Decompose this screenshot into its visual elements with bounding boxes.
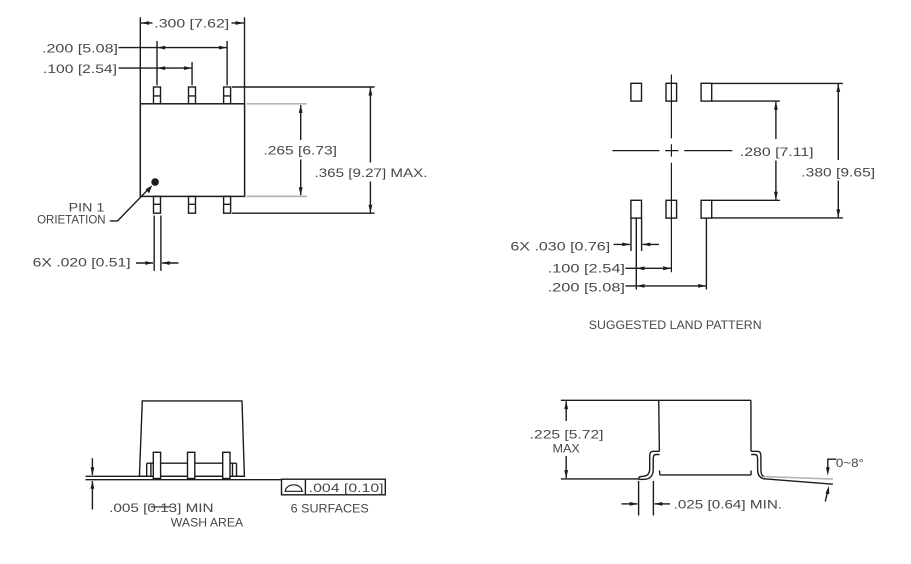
dim 6X .020 extension line right (pin1 right edge)	[160, 216, 162, 271]
dim .200 arrow left	[636, 284, 644, 288]
vertical centerline through pad 2	[670, 75, 672, 273]
dim .225 arrow down	[564, 470, 568, 478]
svg-text:.200 [5.08]: .200 [5.08]	[548, 280, 625, 294]
land pad 2 (top row)	[666, 83, 677, 101]
package body (front view, trapezoid)	[139, 401, 244, 476]
svg-text:.380 [9.65]: .380 [9.65]	[801, 165, 875, 179]
dim .100 arrow left	[636, 266, 644, 270]
pin 4 (bottom row)	[224, 196, 231, 213]
bottom pins shoulder line	[154, 203, 231, 205]
package body right side (stub)	[750, 471, 752, 475]
dim .225 line lower segment	[565, 456, 567, 478]
dim .025 arrow left (outside)	[622, 503, 638, 505]
dim 6X .020 arrow right (outside)	[162, 262, 179, 264]
svg-text:.005 [0.13] MIN: .005 [0.13] MIN	[109, 501, 214, 515]
dim .200 extension line right (pin3 center)	[226, 41, 228, 85]
land pad 1 (top row)	[631, 83, 642, 101]
lead shoulder bar top line	[147, 462, 237, 464]
dim .300 line right segment	[232, 22, 244, 24]
dim .200 extension line left (pin1 center)	[156, 41, 158, 85]
dim .300 line left segment	[141, 22, 153, 24]
svg-text:ORIETATION: ORIETATION	[37, 212, 106, 226]
dim 6X .020 extension line left (pin1 left edge)	[153, 216, 155, 271]
angle lower leader arrowhead	[826, 486, 830, 494]
right gull-wing lead outer outline	[751, 451, 764, 476]
feature control frame box	[282, 479, 386, 495]
pin 1 leader arrowhead	[146, 185, 153, 193]
dim .200 arrow right	[219, 46, 227, 50]
dim 6X .030 arrow left (outside)	[614, 243, 631, 245]
dim .100 extension line (pin2 center)	[191, 62, 193, 85]
svg-text:0~8°: 0~8°	[836, 456, 864, 470]
svg-text:.365 [9.27] MAX.: .365 [9.27] MAX.	[315, 166, 428, 180]
dim .365 line lower segment	[369, 182, 371, 213]
pin 6 (bottom row)	[154, 196, 161, 213]
dim .025 arrow right (outside)	[655, 503, 670, 505]
dim .100 line	[626, 267, 672, 269]
svg-text:WASH AREA: WASH AREA	[171, 516, 243, 530]
pin 1 (top row)	[154, 87, 161, 104]
dim .025 extension line left (foot tip)	[638, 481, 640, 516]
dim 6X .030 extension line (pad left edge)	[630, 218, 632, 251]
lead shoulder bar right caps	[233, 463, 237, 476]
pin 1 orientation dot	[151, 178, 159, 186]
svg-text:MAX: MAX	[553, 441, 580, 455]
package body bottom edge	[660, 474, 751, 476]
svg-text:.265 [6.73]: .265 [6.73]	[263, 143, 337, 157]
dim .380 extension line bottom	[712, 217, 843, 219]
dim extension line (pad1 center)	[635, 218, 637, 289]
dim .005 upper extension/arrow (down)	[91, 458, 93, 475]
dim .280 line upper segment	[775, 102, 777, 139]
dim .300 arrow right	[236, 21, 244, 25]
left gull-wing lead outer outline	[639, 451, 660, 479]
dim .200 arrow left	[157, 46, 165, 50]
dim .300 extension line right	[244, 17, 246, 104]
svg-text:.100 [2.54]: .100 [2.54]	[548, 262, 625, 276]
package bottom / wash line	[86, 475, 245, 477]
dim .365 line upper segment	[369, 88, 371, 163]
svg-text:.300 [7.62]: .300 [7.62]	[154, 16, 229, 30]
right gull-wing lead inner outline	[751, 455, 766, 480]
svg-text:.025 [0.64] MIN.: .025 [0.64] MIN.	[674, 497, 783, 511]
pin 2 (top row)	[189, 87, 196, 104]
dim extension line (pad3 center)	[705, 218, 707, 289]
svg-text:6 SURFACES: 6 SURFACES	[291, 501, 369, 515]
dim .380 extension line top (pad3 top level)	[712, 82, 843, 84]
dim .280 line lower segment	[775, 161, 777, 200]
land pad 5 (bottom row)	[666, 200, 677, 218]
svg-text:6X .020 [0.51]: 6X .020 [0.51]	[33, 255, 131, 269]
dim 6X .030 extension line (pad right edge)	[641, 218, 643, 251]
svg-text:.200 [5.08]: .200 [5.08]	[42, 41, 118, 55]
dim .100 arrow left	[157, 66, 165, 70]
dim .265 line upper segment	[300, 105, 302, 140]
front pin 3	[223, 452, 230, 478]
tilted foot line (max 8 deg)	[766, 479, 833, 484]
dim .380 arrow down	[836, 209, 840, 217]
package body left side (upper)	[658, 400, 661, 451]
dim .265 arrow down	[299, 187, 303, 195]
dim .225 arrow up	[564, 401, 568, 409]
flat foot reference line (gray)	[764, 477, 833, 480]
horizontal centerline	[612, 150, 732, 152]
dim .225 extension line top	[561, 399, 659, 401]
dim .300 arrow left	[141, 21, 149, 25]
left gull-wing lead inner outline	[639, 455, 660, 480]
pin 1 leader line	[110, 188, 150, 221]
dim .025 extension line right (bend)	[652, 481, 654, 516]
dim .380 arrow up	[836, 84, 840, 92]
dim .365 extension line top (pin top level)	[232, 86, 375, 88]
svg-text:.100 [2.54]: .100 [2.54]	[43, 62, 117, 76]
angle lower leader line	[825, 490, 828, 502]
dim .265 line lower segment	[300, 160, 302, 196]
svg-text:6X .030 [0.76]: 6X .030 [0.76]	[510, 239, 610, 253]
svg-text:.280 [7.11]: .280 [7.11]	[740, 145, 814, 159]
dim .300 extension line left	[139, 17, 141, 104]
land pad 3 (top row)	[701, 83, 712, 101]
dim .280 arrow up	[774, 102, 778, 110]
dim .200 line	[626, 285, 707, 287]
dim .225 extension line bottom	[561, 478, 639, 480]
front pin 1	[153, 452, 160, 478]
dim .005 lower extension/arrow (up)	[91, 481, 93, 510]
dim .365 arrow down	[369, 205, 373, 213]
package body right side (upper)	[750, 400, 752, 451]
dim 6X .020 arrow left (outside)	[136, 262, 153, 264]
dim .100 arrow right	[184, 66, 192, 70]
angle callout reference lines	[828, 459, 837, 472]
dim .200 arrow right	[698, 284, 706, 288]
seating plane line	[86, 479, 282, 481]
lead shoulder bar left caps	[147, 463, 151, 476]
dim .265 extension line top (gray, body top level)	[247, 103, 307, 105]
dim .265 arrow up	[299, 105, 303, 113]
dim .280 extension line top (pad3 bottom level)	[712, 100, 780, 102]
pin 5 (bottom row)	[189, 196, 196, 213]
dim .365 extension line bottom (pin bottom level)	[232, 212, 375, 214]
strikethrough artifact in [0.13]	[151, 506, 172, 508]
top pins shoulder line	[154, 95, 231, 97]
dim .100 line	[119, 67, 193, 69]
dim .225 line upper segment	[565, 401, 567, 421]
land pad 6 (bottom row)	[631, 200, 642, 218]
package body (top view)	[140, 104, 244, 197]
pin 3 (top row)	[224, 87, 231, 104]
surface profile symbol (semicircle)	[285, 485, 304, 492]
svg-text:SUGGESTED LAND PATTERN: SUGGESTED LAND PATTERN	[589, 318, 762, 332]
dim .380 line lower segment	[837, 181, 839, 218]
package body left side (stub above bottom corner)	[659, 471, 661, 475]
feature control frame divider	[304, 479, 306, 495]
front pin 2	[188, 452, 195, 478]
dim .200 line	[119, 47, 228, 49]
svg-text:.225 [5.72]: .225 [5.72]	[530, 428, 604, 442]
svg-text:.004 [0.10]: .004 [0.10]	[309, 481, 384, 495]
dim .265 extension line bottom (gray, body bottom level)	[247, 195, 307, 197]
dim .365 arrow up	[369, 87, 373, 95]
dim .100 arrow right	[663, 266, 671, 270]
land pad 4 (bottom row)	[701, 200, 712, 218]
dim .280 arrow down	[774, 192, 778, 200]
dim 6X .030 arrow right (outside)	[643, 243, 659, 245]
dim .380 line upper segment	[837, 84, 839, 160]
angle callout arrow down	[826, 467, 830, 475]
package body top edge	[659, 399, 751, 401]
dim .280 extension line bottom	[712, 199, 780, 201]
